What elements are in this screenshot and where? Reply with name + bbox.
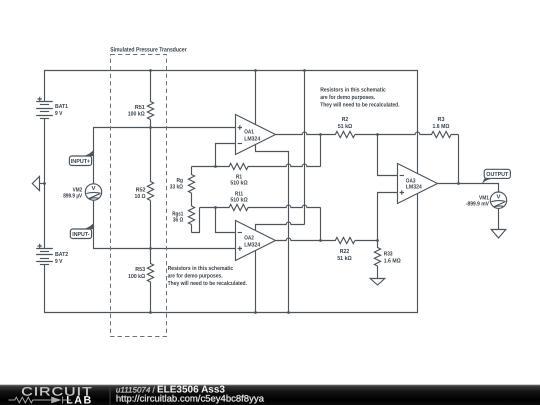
- junction OA1 V- rail: [287, 311, 290, 314]
- wire node INPUT+ row to OA1 +in: [94, 128, 236, 184]
- wire OA3 +in route: [378, 193, 398, 241]
- ground (R33): [370, 279, 385, 286]
- svg-text:510 kΩ: 510 kΩ: [230, 196, 248, 203]
- wire OA1 V+ pin: [255, 71, 257, 126]
- wire OA2 -in stub: [216, 208, 236, 233]
- svg-text:R53: R53: [135, 266, 145, 273]
- wire OA3 output row: [438, 184, 499, 193]
- junction node INPUT+ (R51/R52): [149, 126, 152, 129]
- svg-text:are for demo purposes.: are for demo purposes.: [168, 273, 223, 280]
- junction node R2/R3 (OA3 -in): [376, 133, 379, 136]
- footer divider: [109, 386, 111, 405]
- svg-text:VM2: VM2: [73, 186, 83, 193]
- battery BAT1: [36, 97, 53, 119]
- resistor R2: [332, 131, 378, 137]
- svg-text:R22: R22: [340, 248, 350, 255]
- resistor Rg: [188, 167, 194, 207]
- svg-text:V: V: [92, 185, 96, 192]
- svg-text:510 kΩ: 510 kΩ: [230, 180, 248, 187]
- junction R51 top rail: [149, 69, 152, 72]
- svg-text:They will need to be recalcula: They will need to be recalculated.: [168, 280, 248, 287]
- wire Rgs1 to R11 node: [192, 208, 200, 233]
- ground (VM1): [491, 230, 506, 239]
- wire BAT1- to BAT2+: [44, 119, 46, 249]
- svg-text:V: V: [497, 193, 501, 200]
- wire VM1 bottom lead: [498, 208, 500, 229]
- resistor R1: [192, 163, 321, 169]
- flag OUTPUT: [482, 169, 511, 184]
- op-amp OA3: [398, 164, 438, 204]
- junction node INPUT- (R52/R53): [149, 247, 152, 250]
- flag INPUT-: [70, 223, 94, 239]
- wire R3 right to output: [458, 135, 460, 184]
- svg-text:http://circuitlab.com/c5ey4bc8: http://circuitlab.com/c5ey4bc8f8yya: [116, 393, 265, 403]
- svg-text:1.6 MΩ: 1.6 MΩ: [384, 257, 401, 264]
- svg-text:R2: R2: [342, 116, 349, 123]
- svg-text:100 kΩ: 100 kΩ: [128, 273, 145, 280]
- wire V- rail (bottom): [45, 194, 418, 313]
- svg-text:OA1: OA1: [244, 128, 254, 135]
- svg-text:are for demo purposes.: are for demo purposes.: [320, 94, 375, 101]
- svg-text:51 kΩ: 51 kΩ: [337, 255, 352, 262]
- wire OA3 -in route: [378, 135, 398, 176]
- svg-text:9 V: 9 V: [55, 258, 62, 265]
- svg-text:9 V: 9 V: [55, 110, 62, 117]
- svg-text:LM324: LM324: [244, 241, 261, 248]
- svg-text:INPUT+: INPUT+: [71, 158, 91, 165]
- svg-text:R1: R1: [236, 173, 243, 180]
- svg-text:R51: R51: [135, 104, 146, 111]
- svg-text:R11: R11: [235, 190, 244, 197]
- voltmeter VM1: [490, 192, 506, 208]
- wire OA1 -in stub: [216, 144, 236, 167]
- junction R53 bottom rail: [149, 311, 152, 314]
- junction midpoint ground tap: [43, 182, 46, 185]
- resistor Rgs1: [188, 206, 194, 233]
- svg-text:BAT2: BAT2: [55, 251, 69, 258]
- op-amp OA2: [236, 221, 276, 261]
- resistor R51: [147, 71, 153, 128]
- svg-text:LM324: LM324: [244, 135, 261, 142]
- svg-text:OA3: OA3: [406, 177, 416, 184]
- svg-text:Resistors in this schematic: Resistors in this schematic: [320, 87, 386, 94]
- svg-text:R3: R3: [438, 116, 446, 123]
- note top-right: resistors demo text: [320, 87, 400, 109]
- junction OA2 V- rail: [254, 311, 257, 314]
- resistor R52: [147, 128, 153, 249]
- junction R1 left / OA1 -in node: [214, 165, 217, 168]
- wire OA1 V- pin route: [256, 145, 289, 313]
- wire OA1 output row: [276, 132, 333, 134]
- note bottom-left: resistors demo text: [168, 265, 248, 287]
- svg-text:R52: R52: [136, 186, 147, 193]
- wire OA2 output row: [276, 238, 333, 240]
- junction OA2 V+ rail: [303, 69, 306, 72]
- flag INPUT+: [69, 150, 93, 166]
- junction R11 node to OA2 -in: [214, 206, 217, 209]
- junction OA2 out / R11 fb: [319, 239, 322, 242]
- voltmeter VM2: [85, 184, 101, 200]
- svg-text:Rg: Rg: [177, 177, 184, 184]
- wire OA2 V+ pin route: [256, 71, 305, 231]
- junction OA1 V+ rail: [254, 69, 257, 72]
- resistor R22: [332, 237, 378, 243]
- svg-text:OUTPUT: OUTPUT: [486, 171, 508, 178]
- svg-text:10 Ω: 10 Ω: [135, 193, 146, 200]
- svg-text:899.9 µV: 899.9 µV: [63, 192, 82, 199]
- annotation box Simulated Pressure Transducer: [111, 55, 167, 337]
- svg-text:BAT1: BAT1: [55, 103, 69, 110]
- svg-text:33 kΩ: 33 kΩ: [170, 183, 183, 190]
- svg-text:INPUT-: INPUT-: [72, 231, 89, 238]
- svg-text:Resistors in this schematic: Resistors in this schematic: [168, 265, 234, 272]
- junction node R22/R33 (OA3 +in): [376, 239, 379, 242]
- svg-text:1.6 MΩ: 1.6 MΩ: [433, 123, 450, 130]
- svg-text:R33: R33: [384, 251, 393, 258]
- svg-text:51 kΩ: 51 kΩ: [338, 123, 353, 130]
- resistor R53: [147, 249, 153, 313]
- svg-text:Rgs1: Rgs1: [172, 211, 184, 218]
- op-amp OA1: [236, 115, 276, 155]
- resistor R33: [374, 241, 380, 279]
- wire R1 right to OA1 out: [320, 135, 322, 167]
- svg-text:They will need to be recalcula: They will need to be recalculated.: [320, 101, 400, 108]
- wire V+ rail (top): [45, 71, 418, 175]
- resistor R11: [200, 204, 321, 210]
- svg-text:36 Ω: 36 Ω: [173, 217, 184, 224]
- svg-text:LM324: LM324: [406, 184, 423, 191]
- svg-text:Simulated Pressure Transducer: Simulated Pressure Transducer: [110, 47, 187, 54]
- svg-text:100 kΩ: 100 kΩ: [128, 110, 145, 117]
- logo wire squiggle (resistor + diode): [9, 397, 71, 404]
- wire OA2 V- pin: [255, 251, 257, 313]
- wire R11 right to OA2 out: [320, 208, 322, 241]
- junction OA1 out / R1 fb: [319, 133, 322, 136]
- wire VM2 bottom lead / node INPUT- row to OA2 +in: [94, 200, 236, 248]
- battery BAT2: [36, 244, 53, 265]
- svg-text:OA2: OA2: [244, 234, 254, 241]
- svg-text:-899.9 mV: -899.9 mV: [466, 200, 489, 207]
- resistor R3: [378, 131, 459, 137]
- junction output / R3 fb: [457, 182, 460, 185]
- ground (supply midpoint): [32, 176, 44, 190]
